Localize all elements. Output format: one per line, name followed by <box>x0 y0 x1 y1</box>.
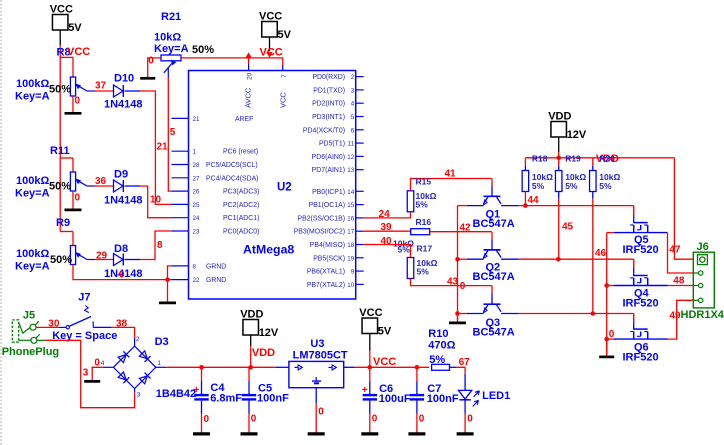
svg-text:PB6(XTAL1): PB6(XTAL1) <box>307 269 345 276</box>
svg-text:5: 5 <box>351 114 355 121</box>
svg-text:6.8mF: 6.8mF <box>210 393 242 405</box>
svg-text:4: 4 <box>101 360 105 367</box>
svg-text:38: 38 <box>116 319 128 330</box>
svg-text:7: 7 <box>281 74 288 78</box>
svg-text:6: 6 <box>351 127 355 134</box>
svg-text:5%: 5% <box>565 181 578 191</box>
svg-text:R21: R21 <box>161 11 181 23</box>
svg-text:41: 41 <box>445 169 457 180</box>
svg-text:PC5/ADC5(SCL): PC5/ADC5(SCL) <box>206 162 258 169</box>
svg-text:R11: R11 <box>50 145 70 157</box>
svg-text:44: 44 <box>528 195 540 206</box>
svg-text:2: 2 <box>351 74 355 81</box>
svg-text:PB7(XTAL2): PB7(XTAL2) <box>307 282 345 289</box>
svg-text:GRND: GRND <box>206 277 226 284</box>
svg-text:BC547A: BC547A <box>473 327 515 339</box>
svg-text:PC2(ADC2): PC2(ADC2) <box>223 202 259 209</box>
svg-text:PC1(ADC1): PC1(ADC1) <box>223 215 259 222</box>
svg-text:50%: 50% <box>49 181 71 193</box>
svg-text:20: 20 <box>247 72 254 80</box>
svg-text:48: 48 <box>673 276 685 287</box>
svg-text:AtMega8: AtMega8 <box>243 243 294 257</box>
svg-text:10: 10 <box>347 282 354 289</box>
svg-text:24: 24 <box>193 215 200 222</box>
svg-text:D9: D9 <box>114 169 128 181</box>
svg-text:2: 2 <box>136 336 140 343</box>
svg-text:12V: 12V <box>567 129 587 141</box>
svg-text:R16: R16 <box>416 217 432 227</box>
svg-text:IRF520: IRF520 <box>623 352 659 364</box>
svg-text:50%: 50% <box>49 84 71 96</box>
svg-text:3: 3 <box>351 87 355 94</box>
svg-text:36: 36 <box>95 176 107 187</box>
svg-text:BC547A: BC547A <box>473 218 515 230</box>
svg-text:R19: R19 <box>565 153 581 163</box>
svg-text:100kΩ: 100kΩ <box>16 175 49 187</box>
svg-text:14: 14 <box>347 189 354 196</box>
svg-text:11: 11 <box>348 141 355 148</box>
svg-text:29: 29 <box>96 251 108 262</box>
svg-text:PC4/ADC4(SDA): PC4/ADC4(SDA) <box>206 175 258 182</box>
svg-text:46: 46 <box>595 248 607 259</box>
svg-text:+: + <box>193 384 199 396</box>
svg-text:1B4B42: 1B4B42 <box>156 388 196 400</box>
svg-text:PB1(OC1A): PB1(OC1A) <box>309 202 345 209</box>
svg-text:45: 45 <box>562 222 574 233</box>
svg-text:GRND: GRND <box>206 263 226 270</box>
svg-text:VDD: VDD <box>548 111 571 123</box>
svg-text:5V: 5V <box>378 326 392 338</box>
svg-text:0: 0 <box>318 407 324 418</box>
svg-text:100kΩ: 100kΩ <box>16 78 49 90</box>
svg-text:PD5(T1): PD5(T1) <box>319 141 345 148</box>
svg-text:50%: 50% <box>192 44 214 56</box>
svg-text:PB2(SS/OC1B): PB2(SS/OC1B) <box>298 215 345 222</box>
svg-text:VCC: VCC <box>50 4 73 16</box>
svg-text:PB4(MISO): PB4(MISO) <box>310 242 345 249</box>
svg-text:PB0(ICP1): PB0(ICP1) <box>312 189 345 196</box>
svg-text:LED1: LED1 <box>482 390 510 402</box>
svg-text:9: 9 <box>351 269 355 276</box>
svg-text:Key=A: Key=A <box>15 261 50 273</box>
svg-text:VCC: VCC <box>259 11 282 23</box>
svg-text:17: 17 <box>347 229 354 236</box>
svg-text:0: 0 <box>467 413 473 424</box>
svg-text:0: 0 <box>75 193 81 204</box>
svg-text:+: + <box>362 384 368 396</box>
svg-text:5V: 5V <box>68 22 82 34</box>
svg-text:0: 0 <box>148 56 154 67</box>
svg-text:100nF: 100nF <box>257 393 289 405</box>
svg-text:100uF: 100uF <box>379 393 411 405</box>
svg-text:VCC: VCC <box>359 307 382 319</box>
svg-text:PhonePlug: PhonePlug <box>2 346 59 358</box>
svg-text:Key=A: Key=A <box>15 91 50 103</box>
svg-text:42: 42 <box>460 223 472 234</box>
svg-text:0: 0 <box>419 413 425 424</box>
svg-text:1: 1 <box>193 149 197 156</box>
svg-text:PD2(INT0): PD2(INT0) <box>312 101 345 108</box>
svg-text:30: 30 <box>48 319 60 330</box>
svg-text:U2: U2 <box>277 182 292 194</box>
svg-text:VCC: VCC <box>373 356 396 368</box>
svg-text:0: 0 <box>609 329 615 340</box>
svg-text:50%: 50% <box>50 254 72 266</box>
svg-text:R20: R20 <box>599 153 615 163</box>
svg-text:Key=A: Key=A <box>154 43 189 55</box>
svg-text:43: 43 <box>447 277 459 288</box>
svg-text:0: 0 <box>372 413 378 424</box>
svg-text:IRF520: IRF520 <box>623 298 659 310</box>
svg-text:PB3(MOSI/OC2): PB3(MOSI/OC2) <box>294 229 345 236</box>
svg-text:LM7805CT: LM7805CT <box>293 350 348 362</box>
svg-text:5%: 5% <box>416 200 429 210</box>
svg-text:J7: J7 <box>78 292 90 304</box>
svg-text:VDD: VDD <box>240 309 263 321</box>
svg-text:18: 18 <box>347 242 354 249</box>
svg-text:8: 8 <box>157 240 163 251</box>
svg-text:IRF520: IRF520 <box>623 244 659 256</box>
svg-text:0: 0 <box>75 96 81 107</box>
svg-text:0: 0 <box>460 281 466 292</box>
svg-text:470Ω: 470Ω <box>428 340 455 352</box>
svg-text:3: 3 <box>83 368 89 379</box>
svg-text:VDD: VDD <box>252 347 275 359</box>
svg-text:21: 21 <box>193 116 200 123</box>
svg-text:49: 49 <box>670 311 682 322</box>
svg-text:0: 0 <box>94 357 100 368</box>
svg-text:AVCC: AVCC <box>244 87 253 108</box>
svg-text:19: 19 <box>347 255 354 262</box>
svg-text:13: 13 <box>347 167 354 174</box>
svg-text:PC0(ADC0): PC0(ADC0) <box>223 229 259 236</box>
svg-text:1: 1 <box>157 360 161 367</box>
svg-text:1N4148: 1N4148 <box>104 99 143 111</box>
svg-text:12: 12 <box>347 154 354 161</box>
svg-text:PD4(XCK/T0): PD4(XCK/T0) <box>303 127 345 134</box>
svg-text:8: 8 <box>193 263 197 270</box>
svg-text:PD7(AIN1): PD7(AIN1) <box>312 167 345 174</box>
svg-text:J5: J5 <box>23 310 35 322</box>
svg-text:47: 47 <box>669 245 681 256</box>
svg-text:PD3(INT1): PD3(INT1) <box>312 114 345 121</box>
svg-text:J6: J6 <box>697 241 709 253</box>
svg-text:39: 39 <box>381 222 393 233</box>
svg-text:PC3(ADC3): PC3(ADC3) <box>223 189 259 196</box>
svg-text:D10: D10 <box>114 73 134 85</box>
svg-text:R18: R18 <box>532 153 548 163</box>
svg-text:5%: 5% <box>429 354 445 366</box>
svg-text:5: 5 <box>170 127 176 138</box>
svg-text:0: 0 <box>204 414 210 425</box>
svg-text:VCC: VCC <box>67 46 90 58</box>
svg-text:U3: U3 <box>310 338 324 350</box>
svg-text:PB5(SCK): PB5(SCK) <box>313 255 345 262</box>
svg-text:R17: R17 <box>417 244 433 254</box>
svg-text:D3: D3 <box>155 336 169 348</box>
svg-text:24: 24 <box>379 209 391 220</box>
svg-text:5%: 5% <box>532 181 545 191</box>
svg-text:4: 4 <box>351 101 355 108</box>
svg-text:0: 0 <box>251 414 257 425</box>
svg-text:15: 15 <box>347 202 354 209</box>
svg-text:67: 67 <box>459 357 471 368</box>
svg-text:27: 27 <box>193 175 200 182</box>
svg-text:BC547A: BC547A <box>473 271 515 283</box>
svg-text:25: 25 <box>193 202 200 209</box>
svg-text:10kΩ: 10kΩ <box>154 32 181 44</box>
svg-text:37: 37 <box>95 81 107 92</box>
svg-text:D8: D8 <box>114 243 128 255</box>
svg-text:PC6 (reset): PC6 (reset) <box>223 149 258 156</box>
svg-text:5%: 5% <box>417 267 430 277</box>
svg-text:Key=A: Key=A <box>15 188 50 200</box>
svg-text:R9: R9 <box>56 217 70 229</box>
svg-text:HDR1X4: HDR1X4 <box>681 309 724 321</box>
svg-text:16: 16 <box>347 215 354 222</box>
svg-text:R15: R15 <box>416 177 432 187</box>
svg-text:5%: 5% <box>398 245 411 255</box>
svg-text:21: 21 <box>157 142 169 153</box>
svg-text:0: 0 <box>119 270 125 281</box>
svg-text:5%: 5% <box>599 181 612 191</box>
svg-text:PD6(AIN0): PD6(AIN0) <box>312 154 345 161</box>
svg-text:VCC: VCC <box>279 92 288 108</box>
svg-text:3: 3 <box>137 392 141 399</box>
svg-text:PD1(TXD): PD1(TXD) <box>313 87 345 94</box>
svg-text:40: 40 <box>381 236 393 247</box>
svg-text:R10: R10 <box>428 328 448 340</box>
svg-text:22: 22 <box>193 277 200 284</box>
svg-text:100kΩ: 100kΩ <box>16 248 49 260</box>
svg-text:AREF: AREF <box>235 116 253 123</box>
svg-text:1N4148: 1N4148 <box>104 195 143 207</box>
svg-text:10: 10 <box>150 195 162 206</box>
svg-text:28: 28 <box>193 162 200 169</box>
svg-text:100nF: 100nF <box>427 393 459 405</box>
svg-text:5V: 5V <box>278 29 292 41</box>
svg-text:12V: 12V <box>259 327 279 339</box>
svg-text:26: 26 <box>193 189 200 196</box>
svg-text:PD0(RXD): PD0(RXD) <box>312 74 345 81</box>
svg-text:23: 23 <box>193 229 200 236</box>
